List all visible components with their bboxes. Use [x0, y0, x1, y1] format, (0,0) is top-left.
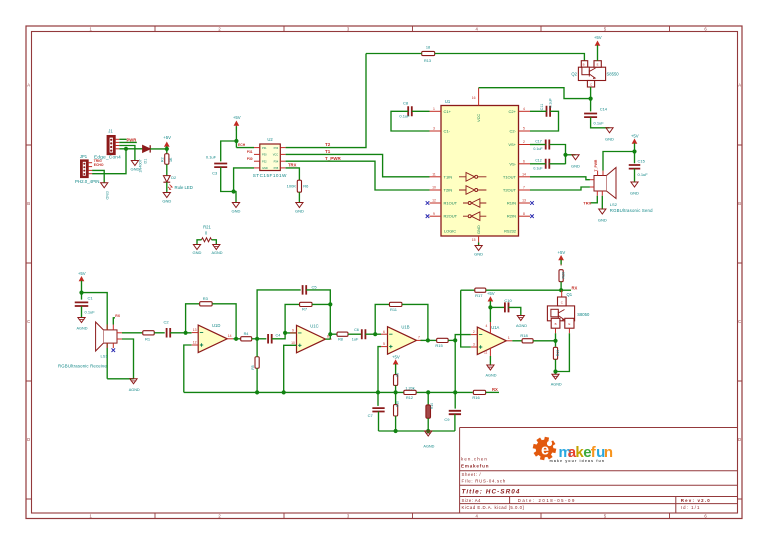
- svg-text:R2IN: R2IN: [507, 214, 516, 219]
- svg-text:T2IN: T2IN: [444, 188, 453, 193]
- capacitor C2: [167, 328, 171, 338]
- svg-text:C: C: [590, 83, 592, 87]
- svg-text:2: 2: [473, 330, 475, 334]
- svg-text:13: 13: [522, 199, 526, 203]
- svg-text:P34: P34: [274, 159, 279, 163]
- svg-text:C15: C15: [638, 158, 646, 163]
- svg-text:RGBUltrasonic Receive: RGBUltrasonic Receive: [58, 364, 107, 369]
- power +5V at R20: [559, 256, 563, 266]
- svg-text:GND: GND: [474, 252, 483, 257]
- svg-text:C: C: [561, 300, 563, 304]
- wire R4 to C4: [252, 338, 267, 340]
- wire D1 to +5V node: [150, 148, 167, 150]
- wire U1B +input to rail: [378, 347, 381, 393]
- diode D1 1N4007: [143, 145, 151, 152]
- wire LS1 top pin to RX label: [113, 318, 115, 325]
- wire C3 bottom to GND: [221, 167, 236, 202]
- junction U1B output: [426, 338, 430, 342]
- svg-text:Title: HC-SR04: Title: HC-SR04: [462, 488, 521, 495]
- junction lower rail R14: [426, 429, 430, 433]
- svg-text:C2-: C2-: [510, 129, 517, 134]
- wire U1D +input to rail: [184, 345, 192, 392]
- wire R17 to Q1 junction: [486, 289, 561, 291]
- resistor R6 100K: [297, 180, 301, 192]
- svg-text:C2+: C2+: [509, 109, 517, 114]
- resistor R1: [143, 331, 155, 335]
- wire C12 to GND junction: [549, 163, 565, 165]
- power +5V at U1A: [488, 297, 492, 307]
- wire C17 to GND junction: [549, 145, 565, 165]
- svg-text:AGND: AGND: [423, 445, 434, 449]
- no-connect R2OUT: [426, 214, 430, 218]
- ground GND at D2: [163, 193, 170, 198]
- junction R19 emitter: [553, 369, 557, 373]
- svg-text:Size: A4: Size: A4: [462, 498, 482, 503]
- wire U2 pin4 left down: [234, 168, 254, 192]
- wire LS2 pin3 to TRX label: [591, 196, 598, 203]
- svg-text:R1OUT: R1OUT: [444, 201, 458, 206]
- svg-text:C6: C6: [354, 328, 359, 332]
- svg-text:ECHO: ECHO: [94, 163, 104, 167]
- svg-text:GND: GND: [295, 208, 304, 213]
- svg-text:4: 4: [523, 107, 525, 111]
- svg-text:C: C: [27, 319, 30, 324]
- junction LS2 +5V: [632, 149, 636, 153]
- wire C15 to GND: [634, 169, 636, 182]
- svg-text:R7: R7: [302, 307, 308, 312]
- svg-text:C17: C17: [535, 139, 542, 143]
- U1 internal buffer T1: [459, 173, 486, 182]
- svg-text:1uF: 1uF: [352, 338, 359, 342]
- resistor R10: [395, 392, 397, 404]
- capacitor C11 0.1uF: [547, 106, 551, 117]
- op-amp U1D: [198, 325, 227, 353]
- svg-text:10: 10: [291, 341, 295, 345]
- svg-text:B: B: [583, 63, 585, 67]
- svg-text:R15: R15: [435, 343, 443, 348]
- svg-text:11: 11: [484, 351, 488, 355]
- svg-text:Rule LED: Rule LED: [175, 185, 193, 190]
- connector JP1: [81, 160, 89, 178]
- ground AGND at LS1: [130, 379, 137, 384]
- svg-text:AGND: AGND: [551, 383, 562, 387]
- svg-text:P31: P31: [247, 150, 253, 154]
- svg-text:S8550: S8550: [607, 71, 620, 76]
- wire C1 to AGND: [81, 306, 83, 317]
- svg-text:8: 8: [523, 212, 525, 216]
- svg-text:12: 12: [432, 199, 436, 203]
- wire C9 to lower rail: [454, 414, 456, 431]
- ground GND below C3: [232, 203, 239, 208]
- wire U2 right pin1 to R13 net T2: [286, 54, 366, 148]
- svg-text:Sheet: /: Sheet: /: [462, 472, 482, 477]
- svg-text:R8: R8: [338, 338, 343, 342]
- wire R19 down to AGND: [555, 359, 557, 374]
- wire J1 pin2: [119, 141, 137, 143]
- svg-text:RX: RX: [492, 387, 498, 392]
- svg-text:0.1uF: 0.1uF: [85, 309, 96, 314]
- wire U1D feedback up: [186, 304, 200, 333]
- LED D2: [163, 176, 170, 182]
- resistor R2: [166, 149, 168, 154]
- capacitor C5 top: [257, 290, 301, 339]
- junction C1 +5V: [79, 291, 83, 295]
- svg-text:RS232: RS232: [504, 229, 516, 234]
- wire Q1 base from node: [555, 333, 557, 341]
- svg-text:D2: D2: [171, 176, 176, 180]
- wire junction to GND: [566, 154, 576, 156]
- svg-text:VCC: VCC: [273, 153, 279, 157]
- svg-text:C: C: [738, 319, 741, 324]
- svg-text:GND: GND: [262, 166, 268, 170]
- svg-text:GND: GND: [605, 137, 614, 142]
- junction rail U1C +input: [282, 390, 286, 394]
- power +5V at D1: [165, 143, 169, 153]
- wire R8 to C6: [348, 333, 362, 335]
- resistor R11: [389, 302, 402, 306]
- svg-text:PH2.0_4PIN: PH2.0_4PIN: [75, 179, 99, 184]
- svg-text:9: 9: [433, 212, 435, 216]
- ground GND below U1: [478, 243, 480, 246]
- svg-text:14: 14: [228, 334, 232, 338]
- op-amp U1B: [388, 327, 417, 355]
- resistor R5: [255, 357, 259, 369]
- svg-text:6: 6: [383, 330, 385, 334]
- junction R4/C5/R5 node: [255, 337, 259, 341]
- svg-text:GND: GND: [232, 208, 241, 213]
- svg-text:R17: R17: [475, 293, 483, 298]
- svg-text:A: A: [27, 83, 30, 88]
- capacitor C15 0.1uF: [629, 165, 641, 169]
- wire R5 stubs: [256, 339, 258, 357]
- no-connect R1IN: [530, 201, 534, 205]
- resistor R14: [427, 392, 429, 405]
- svg-text:1N4007: 1N4007: [138, 159, 142, 172]
- wire R10 to lower rail: [395, 416, 397, 431]
- svg-text:P30: P30: [247, 157, 253, 161]
- svg-text:AGND: AGND: [486, 373, 497, 377]
- power +5V at LS2: [633, 140, 637, 150]
- svg-text:U1B: U1B: [401, 325, 409, 330]
- IC U1 RS232 body: [441, 106, 519, 237]
- wire U2 pin1 left: [236, 147, 254, 149]
- wire C7 to lower rail: [378, 412, 380, 432]
- resistor R9: [394, 375, 398, 386]
- wire LS1 to AGND rail: [107, 378, 133, 380]
- svg-text:R18: R18: [520, 333, 528, 338]
- svg-text:Date: 2018-05-09: Date: 2018-05-09: [518, 498, 576, 503]
- svg-text:C1-: C1-: [444, 129, 451, 134]
- svg-text:15: 15: [472, 238, 476, 242]
- svg-text:ECH: ECH: [238, 143, 246, 147]
- svg-text:0.1uF: 0.1uF: [206, 155, 217, 160]
- JP1 pins: [88, 162, 92, 164]
- junction VS caps: [563, 153, 567, 157]
- svg-text:U1C: U1C: [310, 323, 318, 328]
- power +5V at C1: [80, 277, 84, 287]
- svg-text:5: 5: [523, 127, 525, 131]
- wire U2 right pin3 to T2IN net T_PWR: [286, 161, 430, 190]
- svg-text:R20: R20: [562, 272, 566, 279]
- svg-text:9: 9: [292, 329, 294, 333]
- svg-text:J1: J1: [108, 129, 113, 134]
- ground GND below R6: [296, 203, 303, 208]
- junction Q1 base node: [553, 339, 557, 343]
- wire junction down to JP1 pin4: [92, 149, 126, 174]
- transistor Q2 S8550: [578, 67, 605, 80]
- junction R15 node: [453, 338, 457, 342]
- wire Q1 emitter down: [568, 328, 570, 333]
- capacitor C8 0.1uF: [408, 106, 412, 116]
- wire C5 to right vertical: [306, 290, 330, 339]
- capacitor C7: [377, 392, 379, 406]
- wire U1B feedback vertical: [375, 304, 389, 334]
- svg-text:R19: R19: [556, 350, 560, 357]
- wire R14 to lower rail: [427, 418, 429, 431]
- wire R1 to C2: [154, 332, 164, 334]
- svg-text:U2: U2: [267, 137, 273, 142]
- wire jog up to U1A -input: [455, 335, 471, 341]
- power +5V at bias: [394, 360, 398, 370]
- junction +5V node: [165, 147, 169, 151]
- svg-text:1K: 1K: [169, 157, 173, 162]
- svg-text:S8050: S8050: [577, 312, 590, 317]
- svg-text:18: 18: [426, 46, 430, 50]
- svg-text:STC15F101W: STC15F101W: [253, 173, 287, 178]
- J1 pins: [115, 138, 119, 140]
- wire junction to RX label: [561, 289, 571, 291]
- junction rail R9/R10: [394, 390, 398, 394]
- svg-text:C3: C3: [212, 171, 218, 176]
- svg-text:VS-: VS-: [509, 161, 516, 166]
- junction U1D output: [234, 337, 238, 341]
- svg-text:KiCad E.D.A. kicad [5.0.0]: KiCad E.D.A. kicad [5.0.0]: [462, 505, 525, 510]
- svg-text:R16: R16: [472, 395, 480, 400]
- svg-text:GND: GND: [105, 191, 109, 200]
- svg-text:13: 13: [193, 328, 197, 332]
- svg-text:16: 16: [472, 96, 476, 100]
- wire U2 right pin4 to R6: [286, 168, 300, 180]
- svg-text:T2: T2: [325, 142, 331, 147]
- svg-text:E: E: [568, 322, 570, 326]
- wire R9 to rail: [395, 385, 397, 392]
- junction bias rail right: [453, 390, 457, 394]
- svg-text:+5V: +5V: [78, 271, 86, 276]
- wire LS1 pin2 to R1: [122, 332, 142, 334]
- wire +5V to LS2 top pin: [603, 152, 635, 171]
- U1 VCC pin 16: [478, 88, 480, 106]
- wire output jog to R8 row: [330, 334, 337, 339]
- svg-text:R1IN: R1IN: [507, 201, 516, 206]
- capacitor C9: [454, 392, 456, 408]
- svg-text:LS1: LS1: [101, 354, 109, 359]
- svg-text:VS+: VS+: [508, 142, 516, 147]
- svg-text:R6: R6: [303, 184, 309, 189]
- svg-text:R5: R5: [251, 365, 255, 369]
- svg-text:AGND: AGND: [77, 327, 88, 331]
- svg-text:0.1uF: 0.1uF: [594, 121, 605, 126]
- svg-text:D: D: [738, 437, 741, 442]
- svg-text:R10: R10: [396, 401, 400, 407]
- resistor R7: [300, 302, 313, 306]
- svg-text:100K: 100K: [287, 184, 297, 189]
- resistor R3: [200, 302, 213, 306]
- svg-text:GND: GND: [598, 217, 607, 222]
- wire C6 to U1B -input: [365, 333, 381, 335]
- wire C2+ to C11: [530, 110, 547, 112]
- wire +5V to C10: [490, 306, 505, 308]
- wire J1 pin4 to D1: [119, 148, 142, 150]
- svg-text:U1: U1: [445, 99, 451, 104]
- op-amp U1C: [297, 325, 326, 353]
- svg-text:0.1uF: 0.1uF: [638, 172, 649, 177]
- svg-text:6: 6: [523, 159, 525, 163]
- speaker LS2 RGBUltrasonic Send: [594, 176, 607, 192]
- U1 internal inverter R2: [463, 212, 486, 221]
- svg-text:0.1uF: 0.1uF: [549, 97, 553, 107]
- svg-text:D1: D1: [144, 159, 148, 164]
- svg-text:VCC: VCC: [476, 114, 481, 122]
- wire +5V node to LS1 left pins: [82, 293, 108, 379]
- svg-text:0.1uF: 0.1uF: [533, 166, 543, 170]
- svg-text:AGND: AGND: [129, 388, 140, 392]
- junction Q2 collector: [589, 97, 593, 101]
- junction U1C output: [328, 332, 332, 336]
- ground GND at R21: [193, 245, 200, 250]
- svg-text:10: 10: [432, 186, 436, 190]
- wire U1C +input to rail: [284, 345, 297, 392]
- svg-text:R4: R4: [244, 332, 249, 336]
- title block: [460, 428, 738, 514]
- capacitor C3 0.1uF: [214, 164, 227, 168]
- op-amp U1A: [477, 327, 506, 355]
- svg-text:RGBUltrasonic Send: RGBUltrasonic Send: [610, 208, 653, 213]
- svg-text:C12: C12: [535, 159, 542, 163]
- capacitor C10: [505, 302, 509, 312]
- svg-text:+5V: +5V: [631, 133, 639, 138]
- resistor R4: [241, 337, 252, 341]
- wire U1C feedback vertical: [285, 304, 299, 333]
- svg-text:B: B: [555, 322, 557, 326]
- ground GND at JP1: [101, 183, 108, 188]
- wire VS- to C12: [530, 163, 546, 165]
- resistor R20: [559, 270, 563, 282]
- ground AGND at Q1: [552, 374, 559, 379]
- svg-text:R13: R13: [424, 59, 431, 63]
- wire T1OUT to LS2: [530, 177, 590, 180]
- svg-text:P30: P30: [262, 153, 267, 157]
- wire C10 to AGND: [509, 307, 521, 315]
- svg-text:Q1: Q1: [567, 292, 573, 297]
- speaker LS1 RGBUltrasonic Receive: [103, 330, 117, 343]
- svg-text:1: 1: [508, 336, 510, 340]
- ground AGND at C10: [517, 316, 524, 321]
- wire R16 to RX label: [486, 391, 499, 393]
- svg-text:GND: GND: [162, 198, 171, 203]
- svg-text:C9: C9: [444, 417, 450, 422]
- svg-text:Q2: Q2: [571, 71, 577, 76]
- no-connect R1OUT: [426, 201, 430, 205]
- resistor R15: [437, 338, 449, 342]
- wire C2 to U1D input: [170, 332, 191, 334]
- junction at J1 pin4: [124, 147, 128, 151]
- svg-text:C5: C5: [312, 285, 318, 290]
- svg-text:e: e: [541, 443, 549, 459]
- capacitor C1 0.1uF: [75, 302, 89, 306]
- U1A power pin 11 to AGND: [489, 348, 491, 356]
- wire junction down to bias rail: [454, 340, 456, 392]
- ground GND at C15: [631, 182, 638, 187]
- svg-text:RX: RX: [115, 314, 120, 318]
- svg-text:TRX: TRX: [288, 163, 297, 168]
- junction rail R14: [426, 390, 430, 394]
- svg-text:Rev: v2.0: Rev: v2.0: [681, 498, 711, 503]
- junction R7/C5 right: [328, 302, 332, 306]
- svg-text:C2: C2: [163, 319, 169, 324]
- svg-text:LOGIC: LOGIC: [444, 229, 456, 234]
- svg-text:5: 5: [383, 342, 385, 346]
- svg-text:P35: P35: [274, 166, 279, 170]
- wire T2 net to R13: [366, 53, 422, 55]
- power +5V at U2: [234, 122, 238, 132]
- U1 left pins: [430, 110, 442, 112]
- junction lower rail R10: [394, 429, 398, 433]
- svg-text:Emakefun: Emakefun: [461, 463, 489, 468]
- svg-text:0.1uF: 0.1uF: [533, 147, 543, 151]
- svg-text:+5V: +5V: [487, 291, 495, 296]
- svg-text:C8: C8: [403, 101, 409, 106]
- wire T2OUT to LS2: [530, 187, 590, 190]
- wire U2 right pin2 to T1IN: [286, 154, 430, 176]
- capacitor C4: [268, 334, 272, 344]
- svg-text:R2OUT: R2OUT: [444, 214, 458, 219]
- wire Q2 collector to C14 and VCC: [590, 87, 592, 111]
- svg-text:3: 3: [433, 127, 435, 131]
- svg-text:R14: R14: [430, 403, 434, 409]
- U1 right pins: [519, 110, 531, 112]
- svg-text:14: 14: [522, 172, 526, 176]
- svg-text:11: 11: [432, 172, 436, 176]
- svg-text:P32: P32: [262, 159, 267, 163]
- wire C8 to C1+: [412, 110, 430, 112]
- transistor Q1 S8050: [561, 290, 563, 297]
- svg-text:make your ideas fun: make your ideas fun: [550, 459, 606, 463]
- no-connect R2IN: [530, 214, 534, 218]
- wire +5V to C3 top: [221, 141, 237, 161]
- wire U1B output to R15: [421, 339, 437, 341]
- resistor R8: [337, 332, 348, 336]
- wire U1D output: [233, 338, 241, 340]
- svg-text:C7: C7: [368, 413, 374, 418]
- power +5V at Q2: [596, 42, 600, 52]
- wire JP1 pin3 to GND: [92, 170, 104, 182]
- svg-text:GND: GND: [630, 190, 639, 195]
- wire VS+ to C17 handled by pin: [530, 144, 546, 146]
- feedback row R17: [461, 289, 475, 291]
- wire C8 to C1-: [391, 111, 430, 131]
- capacitor C12 0.1uF: [546, 159, 550, 169]
- svg-text:C1+: C1+: [444, 109, 452, 114]
- bias rail wire: [184, 391, 455, 393]
- capacitor C17 0.1uF: [546, 140, 550, 150]
- wire C14 to GND: [591, 117, 610, 128]
- svg-text:GND: GND: [476, 225, 481, 234]
- junction +5V/C3: [234, 139, 238, 143]
- svg-text:3: 3: [473, 343, 475, 347]
- svg-text:+5V: +5V: [163, 135, 171, 140]
- svg-text:+5V: +5V: [392, 354, 400, 359]
- wire LS2 pin4 to GND: [601, 196, 603, 209]
